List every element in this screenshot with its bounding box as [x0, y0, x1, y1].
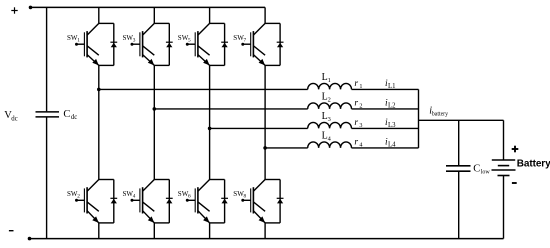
svg-text:3: 3 [328, 116, 331, 123]
label SW2 [67, 190, 80, 200]
label iL3 (phase current) [385, 118, 396, 129]
wire Clow branch lower [458, 172, 460, 239]
svg-text:3: 3 [133, 38, 136, 44]
label iL2 (phase current) [385, 98, 396, 109]
label + (battery positive) [512, 146, 519, 153]
wire battery negative lead [503, 176, 505, 239]
wire battery positive lead [503, 120, 505, 160]
node DC+ terminal [29, 6, 33, 10]
wire phase node 3 to SW6 collector [209, 128, 211, 179]
label SW6 [178, 190, 191, 200]
wire inductor L3 to output bus [352, 127, 419, 129]
svg-text:4: 4 [133, 194, 136, 200]
node phase 3 junction [208, 127, 212, 131]
inductor L3 [308, 122, 352, 128]
wire DC+ top rail [31, 6, 266, 8]
diode antiparallel with SW1 [99, 23, 117, 65]
label r3 (inductor resistance) [354, 118, 362, 129]
diode antiparallel with SW6 [210, 180, 228, 223]
wire phase node 1 to SW2 collector [98, 89, 100, 179]
wire ibattery (bus to battery branch) [419, 119, 504, 121]
transistor SW2 (lower IGBT leg 1) [75, 180, 99, 223]
label + (DC positive terminal) [11, 7, 17, 13]
label SW7 [233, 34, 246, 44]
diode antiparallel with SW5 [210, 23, 228, 65]
svg-text:8: 8 [244, 194, 247, 200]
capacitor Clow [446, 166, 471, 171]
diode antiparallel with SW7 [265, 23, 283, 65]
wire leg1 from DC+ rail to SW1 collector [98, 7, 100, 23]
label iL4 (phase current) [385, 137, 396, 148]
wire output bus (phase summing node) [418, 89, 420, 147]
wire leg2 from DC+ rail to SW3 collector [153, 7, 155, 23]
diode antiparallel with SW2 [99, 180, 117, 223]
wire Clow branch upper [458, 120, 460, 165]
svg-text:7: 7 [244, 38, 247, 44]
wire SW4 emitter to DC- rail [153, 223, 155, 239]
svg-text:Battery: Battery [517, 159, 550, 170]
label SW4 [123, 190, 136, 200]
wire leg3 from DC+ rail to SW5 collector [209, 7, 211, 23]
label - (battery negative) [512, 182, 517, 184]
wire SW7 emitter to phase node 4 [264, 65, 266, 147]
capacitor Cdc [36, 112, 60, 117]
wire SW5 emitter to phase node 3 [209, 65, 211, 128]
svg-text:low: low [481, 170, 491, 176]
wire inductor L4 to output bus [352, 147, 419, 149]
label ibattery [429, 106, 448, 118]
transistor SW3 (upper IGBT leg 2) [131, 23, 155, 65]
transistor SW8 (lower IGBT leg 4) [241, 180, 265, 223]
wire inductor L2 to output bus [352, 108, 419, 110]
wire SW3 emitter to phase node 2 [153, 65, 155, 109]
svg-text:C: C [63, 109, 70, 120]
transistor SW5 (upper IGBT leg 3) [186, 23, 210, 65]
wire SW6 emitter to DC- rail [209, 223, 211, 239]
diode antiparallel with SW8 [265, 180, 283, 223]
svg-text:1: 1 [77, 38, 80, 44]
svg-text:dc: dc [71, 114, 77, 121]
svg-text:2: 2 [77, 194, 80, 200]
label r4 (inductor resistance) [354, 138, 362, 149]
svg-text:battery: battery [432, 112, 448, 118]
svg-text:6: 6 [188, 194, 191, 200]
label Cdc [63, 109, 77, 121]
wire phase 1 to inductor L1 [99, 88, 308, 90]
label r2 (inductor resistance) [354, 99, 362, 110]
svg-text:r: r [354, 138, 358, 148]
wire phase 3 to inductor L3 [210, 127, 308, 129]
wire left bus lower (Vdc branch) [46, 118, 48, 239]
battery symbol (4 cell bars) [492, 160, 516, 176]
node phase 1 junction [97, 88, 101, 92]
svg-text:r: r [354, 99, 358, 109]
svg-text:1: 1 [328, 77, 331, 84]
svg-text:5: 5 [188, 38, 191, 44]
diode antiparallel with SW3 [154, 23, 172, 65]
wire left bus upper (Vdc branch) [46, 7, 48, 111]
wire leg4 from DC+ rail to SW7 collector [264, 7, 266, 23]
label - (DC negative terminal) [9, 230, 14, 232]
wire phase 4 to inductor L4 [265, 147, 308, 149]
inductor L1 [308, 83, 352, 89]
wire inductor L1 to output bus [352, 88, 419, 90]
label Vdc [4, 110, 17, 122]
node phase 4 junction [263, 146, 267, 150]
label Clow [473, 163, 490, 175]
transistor SW6 (lower IGBT leg 3) [186, 180, 210, 223]
label SW3 [123, 34, 136, 44]
wire phase 2 to inductor L2 [154, 108, 307, 110]
label iL1 (phase current) [385, 79, 396, 90]
label SW8 [233, 190, 246, 200]
wire phase node 4 to SW8 collector [264, 148, 266, 180]
inductor L2 [308, 103, 352, 109]
label L4 [322, 131, 332, 143]
label SW1 [67, 34, 80, 44]
svg-text:C: C [473, 163, 480, 174]
label L2 [322, 92, 331, 104]
wire SW1 emitter to phase node 1 [98, 65, 100, 89]
wire SW8 emitter to DC- rail [264, 223, 266, 239]
node phase 2 junction [153, 107, 157, 111]
svg-text:r: r [354, 79, 358, 89]
label r1 (inductor resistance) [354, 79, 362, 90]
node DC- terminal [28, 237, 32, 241]
svg-text:r: r [354, 118, 358, 128]
wire phase node 2 to SW4 collector [153, 109, 155, 180]
wire DC- bottom rail [30, 238, 504, 240]
transistor SW4 (lower IGBT leg 2) [131, 180, 155, 223]
diode antiparallel with SW4 [154, 180, 172, 223]
inductor L4 [308, 142, 352, 148]
svg-text:2: 2 [328, 97, 331, 104]
svg-text:dc: dc [11, 115, 17, 122]
label L1 [322, 72, 331, 84]
wire SW2 emitter to DC- rail [98, 223, 100, 239]
label SW5 [178, 34, 191, 44]
label L3 [322, 111, 331, 123]
transistor SW1 (upper IGBT leg 1) [75, 23, 99, 65]
transistor SW7 (upper IGBT leg 4) [241, 23, 265, 65]
